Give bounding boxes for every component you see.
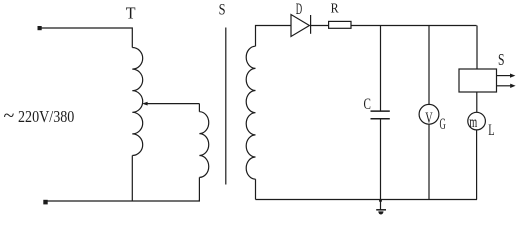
wire meter L bottom bbox=[476, 130, 478, 200]
svg-text:S: S bbox=[219, 1, 226, 18]
bottom rail right bbox=[256, 199, 478, 201]
svg-text:G: G bbox=[440, 116, 446, 133]
ground dome bbox=[378, 211, 383, 214]
wire tap down to T secondary bbox=[198, 104, 200, 112]
resistor R body bbox=[329, 21, 351, 28]
arrow output 2 bbox=[497, 85, 512, 87]
voltmeter G circle bbox=[419, 104, 439, 124]
meter L circle bbox=[468, 112, 486, 130]
svg-text:S: S bbox=[498, 50, 505, 69]
HV winding top wire bbox=[256, 26, 292, 47]
arrowhead output 1 bbox=[510, 74, 515, 78]
diode D triangle bbox=[291, 15, 309, 37]
wire voltmeter top bbox=[428, 26, 430, 105]
svg-text:T: T bbox=[126, 3, 136, 22]
junction dot at ground node bbox=[379, 199, 382, 202]
transformer T primary winding bbox=[132, 48, 142, 156]
wire T secondary bottom bbox=[198, 177, 200, 201]
capacitor C bottom plate bbox=[371, 118, 390, 120]
wire capacitor bottom to ground bbox=[380, 119, 382, 210]
tap arrow wire bbox=[146, 103, 199, 105]
svg-text:~: ~ bbox=[4, 105, 15, 127]
svg-text:C: C bbox=[364, 96, 371, 113]
tap arrowhead bbox=[142, 102, 148, 106]
svg-text:R: R bbox=[331, 2, 340, 17]
ground bar bbox=[376, 209, 386, 211]
wire S box to meter L bbox=[476, 92, 478, 112]
spark gap box S bbox=[459, 69, 497, 92]
wire primary bottom bbox=[131, 156, 133, 202]
svg-text:m: m bbox=[469, 114, 477, 131]
svg-text:220V/380: 220V/380 bbox=[18, 107, 74, 126]
diode D cathode bar bbox=[310, 15, 312, 34]
wire S box top bbox=[476, 26, 478, 70]
transformer core/shield line S bbox=[225, 28, 227, 185]
terminal bottom-left bbox=[43, 200, 47, 205]
transformer T secondary winding bbox=[199, 112, 208, 178]
wire top rail right of resistor bbox=[351, 25, 477, 27]
arrow output 1 bbox=[497, 75, 512, 77]
wire diode to resistor bbox=[311, 25, 329, 27]
wire voltmeter bottom bbox=[428, 124, 430, 199]
wire bottom-left rail bbox=[48, 200, 200, 201]
HV winding bottom wire bbox=[255, 179, 257, 199]
svg-text:V: V bbox=[425, 110, 433, 127]
wire capacitor top bbox=[380, 26, 382, 112]
svg-text:L: L bbox=[488, 122, 494, 139]
arrowhead output 2 bbox=[510, 84, 515, 88]
capacitor C top plate bbox=[371, 110, 390, 112]
terminal top-left bbox=[38, 26, 42, 30]
svg-text:D: D bbox=[296, 1, 302, 18]
HV transformer winding bbox=[246, 46, 255, 179]
wire top-left to transformer primary bbox=[42, 28, 133, 48]
